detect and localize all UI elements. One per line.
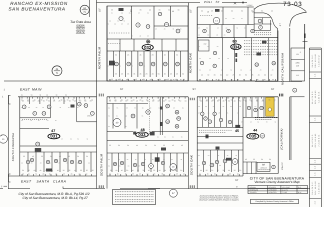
svg-text:30: 30 — [211, 169, 213, 172]
svg-text:30: 30 — [141, 100, 143, 103]
svg-text:035: 035 — [249, 134, 257, 139]
svg-text:35: 35 — [140, 9, 142, 12]
svg-text:44: 44 — [253, 128, 257, 132]
svg-text:ST: ST — [271, 88, 275, 91]
svg-text:35: 35 — [133, 73, 135, 76]
svg-text:REV. 12-9-85: REV. 12-9-85 — [314, 134, 317, 148]
svg-text:40: 40 — [175, 78, 177, 81]
svg-text:47: 47 — [51, 129, 55, 133]
svg-text:25: 25 — [110, 169, 112, 172]
svg-text:35: 35 — [153, 169, 155, 172]
svg-text:50: 50 — [159, 78, 161, 81]
svg-text:60: 60 — [231, 10, 233, 13]
svg-text:REDRAWN: REDRAWN — [250, 189, 259, 192]
svg-text:25: 25 — [137, 169, 139, 172]
svg-text:50: 50 — [158, 73, 160, 76]
svg-text:45: 45 — [135, 78, 137, 81]
svg-text:60: 60 — [200, 169, 202, 172]
svg-text:25: 25 — [152, 54, 154, 57]
svg-text:SOUTH FIGUEROA: SOUTH FIGUEROA — [12, 133, 15, 161]
svg-text:35: 35 — [111, 78, 113, 81]
svg-text:40: 40 — [121, 169, 123, 172]
svg-text:35: 35 — [92, 169, 94, 172]
svg-text:45: 45 — [127, 54, 129, 57]
svg-text:40: 40 — [258, 74, 260, 77]
svg-text:7-3-85: 7-3-85 — [282, 191, 287, 194]
svg-text:35: 35 — [80, 169, 82, 172]
svg-text:35: 35 — [68, 169, 70, 172]
svg-text:30: 30 — [241, 10, 243, 13]
svg-text:35: 35 — [28, 169, 30, 172]
svg-text:60: 60 — [34, 169, 36, 172]
svg-text:45: 45 — [245, 158, 247, 161]
svg-text:40: 40 — [270, 74, 272, 77]
svg-text:8: 8 — [294, 89, 295, 92]
svg-text:ST: ST — [98, 8, 101, 12]
svg-text:SOUTH OAK: SOUTH OAK — [190, 154, 194, 175]
svg-text:35: 35 — [115, 73, 117, 76]
svg-text:ST: ST — [235, 179, 239, 182]
svg-text:REVISED: REVISED — [269, 186, 277, 189]
svg-text:25: 25 — [174, 100, 176, 103]
svg-text:SOUTH PALM: SOUTH PALM — [99, 154, 103, 176]
svg-text:30: 30 — [176, 54, 178, 57]
svg-text:EAST: EAST — [20, 88, 31, 92]
svg-text:TRACED: TRACED — [250, 191, 258, 194]
svg-text:45: 45 — [139, 73, 141, 76]
svg-text:25: 25 — [146, 73, 148, 76]
svg-text:21-4-71 R.C.: 21-4-71 R.C. — [311, 54, 314, 67]
svg-text:87: 87 — [236, 185, 238, 188]
svg-text:35: 35 — [127, 73, 129, 76]
svg-text:50: 50 — [245, 74, 247, 77]
svg-text:45: 45 — [139, 54, 141, 57]
svg-text:4-12-71: 4-12-71 — [282, 189, 288, 192]
svg-text:NORTH PALM: NORTH PALM — [97, 47, 101, 70]
svg-text:152: 152 — [296, 53, 299, 56]
svg-text:UPDATED: UPDATED — [269, 191, 278, 194]
svg-text:ARB 4/8: ARB 4/8 — [260, 167, 266, 170]
svg-text:40: 40 — [136, 144, 138, 147]
svg-text:30: 30 — [172, 10, 174, 13]
svg-text:25: 25 — [251, 74, 253, 77]
svg-text:50: 50 — [175, 169, 177, 172]
svg-text:30: 30 — [77, 155, 79, 158]
svg-text:45: 45 — [148, 169, 150, 172]
svg-text:30: 30 — [178, 9, 180, 12]
svg-text:40: 40 — [271, 10, 273, 13]
svg-text:50: 50 — [22, 169, 24, 172]
svg-text:40: 40 — [226, 74, 228, 77]
svg-text:60: 60 — [185, 100, 187, 103]
svg-text:SAN BUENAVENTURA: SAN BUENAVENTURA — [8, 6, 65, 11]
svg-text:MAIN: MAIN — [32, 88, 42, 92]
svg-text:45: 45 — [74, 100, 76, 103]
svg-text:30: 30 — [86, 155, 88, 158]
svg-text:45: 45 — [235, 129, 239, 133]
svg-text:CALIF: CALIF — [281, 162, 284, 170]
svg-text:R.C.: R.C. — [298, 186, 302, 189]
svg-text:40: 40 — [149, 9, 151, 12]
svg-text:30: 30 — [127, 144, 129, 147]
svg-text:4/8: 4/8 — [296, 64, 299, 67]
svg-text:REV. 12-9-85: REV. 12-9-85 — [314, 181, 317, 195]
svg-text:35: 35 — [169, 169, 171, 172]
svg-text:25: 25 — [239, 74, 241, 77]
svg-text:60: 60 — [115, 169, 117, 172]
svg-text:CHECKED: CHECKED — [269, 189, 278, 192]
svg-text:(CALIFORNIA): (CALIFORNIA) — [281, 128, 284, 150]
svg-text:35: 35 — [68, 155, 70, 158]
svg-text:50: 50 — [180, 169, 182, 172]
svg-text:50: 50 — [269, 158, 271, 161]
svg-text:30: 30 — [154, 144, 156, 147]
svg-text:59: 59 — [146, 40, 150, 44]
svg-text:30: 30 — [45, 169, 47, 172]
svg-text:12-9-2005: 12-9-2005 — [282, 186, 290, 189]
svg-text:60: 60 — [221, 10, 223, 13]
svg-text:50: 50 — [118, 144, 120, 147]
svg-text:50: 50 — [126, 169, 128, 172]
svg-text:CLARA: CLARA — [53, 179, 67, 183]
svg-text:30: 30 — [142, 169, 144, 172]
svg-text:45: 45 — [59, 155, 61, 158]
svg-text:21-4-71 R.C.: 21-4-71 R.C. — [311, 134, 314, 147]
svg-text:NORTH OAK: NORTH OAK — [189, 52, 193, 73]
svg-text:35: 35 — [111, 9, 113, 12]
svg-text:Assessor's Detail Numbers S: Assessor's Detail Numbers Shown in Squar… — [198, 198, 238, 201]
svg-text:45: 45 — [172, 144, 174, 147]
svg-text:50: 50 — [64, 100, 66, 103]
svg-text:35: 35 — [217, 169, 219, 172]
svg-text:60: 60 — [201, 10, 203, 13]
svg-text:30: 30 — [145, 144, 147, 147]
svg-text:30: 30 — [115, 54, 117, 57]
svg-text:25: 25 — [170, 73, 172, 76]
svg-text:Ventura County Assessor's M: Ventura County Assessor's Map — [254, 180, 299, 184]
svg-text:45: 45 — [181, 144, 183, 147]
svg-text:ST: ST — [120, 88, 124, 91]
svg-text:40: 40 — [234, 100, 236, 103]
svg-text:ST: ST — [193, 88, 197, 91]
svg-text:7-3-85 B.W.: 7-3-85 B.W. — [317, 54, 320, 66]
svg-text:50: 50 — [261, 158, 263, 161]
svg-text:45: 45 — [32, 155, 34, 158]
svg-text:30: 30 — [164, 169, 166, 172]
svg-text:032: 032 — [144, 45, 152, 50]
svg-text:152: 152 — [204, 43, 207, 46]
svg-text:25: 25 — [23, 155, 25, 158]
svg-text:30: 30 — [168, 9, 170, 12]
svg-text:25: 25 — [38, 100, 40, 103]
svg-text:40: 40 — [51, 169, 53, 172]
svg-text:ST: ST — [279, 22, 282, 26]
svg-text:EAST: EAST — [21, 179, 32, 183]
svg-text:29: 29 — [252, 11, 254, 14]
svg-text:30: 30 — [63, 169, 65, 172]
svg-text:Compiled By Ventura County: Compiled By Ventura County Assessor’s Of… — [255, 200, 293, 203]
svg-text:30: 30 — [50, 155, 52, 158]
svg-text:1.25AC: 1.25AC — [247, 4, 254, 7]
svg-text:40: 40 — [201, 74, 203, 77]
svg-text:DRAWN: DRAWN — [250, 186, 257, 189]
svg-text:35: 35 — [41, 155, 43, 158]
svg-text:034: 034 — [232, 44, 240, 49]
svg-text:35: 35 — [86, 169, 88, 172]
svg-text:RANCHO EX-MISSION: RANCHO EX-MISSION — [10, 1, 68, 6]
svg-text:25: 25 — [206, 169, 208, 172]
svg-text:60: 60 — [168, 100, 170, 103]
svg-text:B.W.: B.W. — [298, 191, 302, 194]
svg-text:25: 25 — [253, 158, 255, 161]
svg-text:ST: ST — [190, 9, 193, 13]
svg-text:45: 45 — [152, 73, 154, 76]
svg-text:7-3-85 B.W.: 7-3-85 B.W. — [317, 91, 320, 103]
svg-text:40: 40 — [57, 169, 59, 172]
svg-text:City of San Buenaventura,: City of San Buenaventura, M.R. Bk.14, Pg… — [23, 196, 88, 200]
svg-text:30: 30 — [159, 9, 161, 12]
svg-text:45: 45 — [136, 100, 138, 103]
svg-text:NORTH CALIFORNIA: NORTH CALIFORNIA — [281, 53, 285, 85]
svg-text:031: 031 — [50, 134, 58, 139]
svg-text:45: 45 — [167, 78, 169, 81]
svg-text:45: 45 — [164, 54, 166, 57]
svg-text:30: 30 — [214, 74, 216, 77]
svg-text:25: 25 — [233, 74, 235, 77]
svg-text:40: 40 — [39, 169, 41, 172]
svg-text:60: 60 — [264, 74, 266, 77]
svg-text:30: 30 — [222, 169, 224, 172]
svg-text:25: 25 — [121, 73, 123, 76]
svg-text:21-4-71 R.C.: 21-4-71 R.C. — [311, 90, 314, 103]
svg-text:21-4-71 R.C.: 21-4-71 R.C. — [311, 181, 314, 194]
svg-text:033: 033 — [138, 132, 146, 137]
svg-text:50: 50 — [239, 169, 241, 172]
svg-text:03: 03 — [2, 138, 4, 141]
svg-text:35: 35 — [109, 144, 111, 147]
svg-text:50: 50 — [48, 100, 50, 103]
svg-text:60: 60 — [228, 169, 230, 172]
svg-text:7-3-85 B.W.: 7-3-85 B.W. — [317, 134, 320, 146]
svg-text:REV. 12-9-85: REV. 12-9-85 — [314, 90, 317, 104]
svg-text:25: 25 — [164, 73, 166, 76]
svg-text:25: 25 — [211, 10, 213, 13]
svg-text:40: 40 — [132, 169, 134, 172]
svg-text:50: 50 — [228, 100, 230, 103]
svg-text:25: 25 — [176, 73, 178, 76]
svg-text:25: 25 — [69, 100, 71, 103]
svg-text:30: 30 — [182, 73, 184, 76]
svg-text:60: 60 — [183, 78, 185, 81]
svg-text:SANTA: SANTA — [37, 179, 50, 183]
svg-text:7-3-85 B.W.: 7-3-85 B.W. — [317, 182, 320, 194]
svg-text:30: 30 — [207, 74, 209, 77]
svg-text:REV. 12-9-85: REV. 12-9-85 — [314, 54, 317, 68]
svg-text:35: 35 — [234, 169, 236, 172]
svg-text:4/8: 4/8 — [296, 74, 299, 77]
svg-text:POLI: POLI — [204, 0, 212, 4]
svg-text:28: 28 — [207, 11, 209, 14]
svg-text:35: 35 — [43, 100, 45, 103]
svg-text:60: 60 — [220, 74, 222, 77]
svg-text:40: 40 — [159, 169, 161, 172]
svg-text:40: 40 — [74, 169, 76, 172]
svg-text:35: 35 — [163, 144, 165, 147]
svg-text:50: 50 — [261, 10, 263, 13]
svg-text:28: 28 — [130, 10, 132, 13]
